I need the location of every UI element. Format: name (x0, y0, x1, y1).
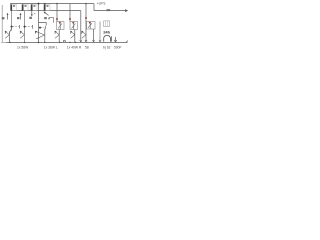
wire: branch stub x=70 H1 to box (69, 4, 71, 22)
lamp L3 (on branch 44.7) (36, 31, 45, 38)
wire: branch 2 from H2 down (24, 11, 26, 31)
svg-text:1x 58W: 1x 58W (17, 45, 29, 49)
lamp L5 (74, 30, 76, 43)
switch label c (branch3) (29, 17, 32, 19)
wire: vertical x=100 (99, 22, 101, 43)
svg-text:24h: 24h (103, 29, 110, 34)
fuse F2 box (22, 5, 28, 11)
rail node dots (9, 42, 10, 43)
svg-text:58: 58 (85, 45, 89, 49)
wire: H3 +UPs feeder with arrow (94, 10, 128, 12)
bottom rail H4 (1, 41, 128, 43)
svg-text:+UPs: +UPs (97, 1, 106, 5)
fuse F3 box (31, 5, 37, 11)
wire: branch stub x=57 H1 to box (56, 4, 58, 22)
wire: branch x=86 H1 down (85, 4, 87, 22)
wire drop at 115.5 with arrow (115, 37, 117, 42)
node on H1 at x=38.5 (38, 3, 40, 5)
wire: top rail H1 (10, 3, 94, 5)
right end hook (126, 41, 128, 43)
svg-text:500F: 500F (114, 45, 122, 49)
timer box 24h (104, 21, 110, 27)
wire: jog from 38.5 (39, 23, 47, 26)
wire: left frame vertical (1, 5, 3, 41)
lamp L1 (10, 28, 12, 32)
wire: stub into box K1 (49, 18, 54, 23)
svg-text:1x 40W R: 1x 40W R (67, 45, 82, 49)
relay K2 box (70, 22, 78, 30)
fuse F4 box (44, 5, 50, 11)
node on H1 at x=86 (85, 3, 87, 5)
wire: branch 1 from H2 down (11, 11, 13, 31)
relay K1 box (57, 22, 65, 30)
lamp L6 (85, 22, 87, 43)
wire: branch x=38.5 full drop (38, 4, 40, 43)
wire: H2 distribution line (11, 10, 81, 12)
dashed control line branch4 (39, 27, 41, 29)
node on H1 at x=44.8 (44, 3, 46, 5)
switch arrow a (branch1) (7, 15, 9, 20)
tiny mark left of branch 38.5 (34, 13, 35, 14)
wire: branch 3 stub with arrow (31, 11, 33, 17)
wire: lamp L3 branch drop (44, 29, 46, 43)
wire: branch G corner from H2 end (80, 11, 82, 43)
arrow feet on rail (80, 40, 82, 42)
wire: corner at x=94 from H1 down to H3 (93, 4, 95, 11)
lamp L2 (23, 31, 25, 43)
fuse F1 box (11, 5, 17, 11)
label on H3 (107, 9, 111, 11)
svg-text:b) 62: b) 62 (103, 45, 111, 49)
node on H1 at x=57 (56, 3, 58, 5)
background (0, 0, 130, 50)
relay K3 box (87, 22, 96, 30)
node red at (86,18) (85, 17, 87, 19)
wire: left corner to bottom rail (2, 40, 4, 42)
switch arrow b (branch2) (20, 15, 22, 20)
node red at (70,19) (69, 18, 71, 20)
wire: box K3 exit to rail (93, 29, 95, 42)
dashed control line branch1 (11, 26, 13, 28)
bell dome (104, 35, 111, 41)
svg-text:1x 36W L: 1x 36W L (44, 45, 58, 49)
switch arrow d (branch4) (44, 12, 48, 15)
lamp L4 (58, 30, 60, 43)
dashed control line branch2 (24, 26, 26, 28)
node dot at (64,41.4) (63, 40, 65, 42)
node red at (57,19) (56, 18, 58, 20)
